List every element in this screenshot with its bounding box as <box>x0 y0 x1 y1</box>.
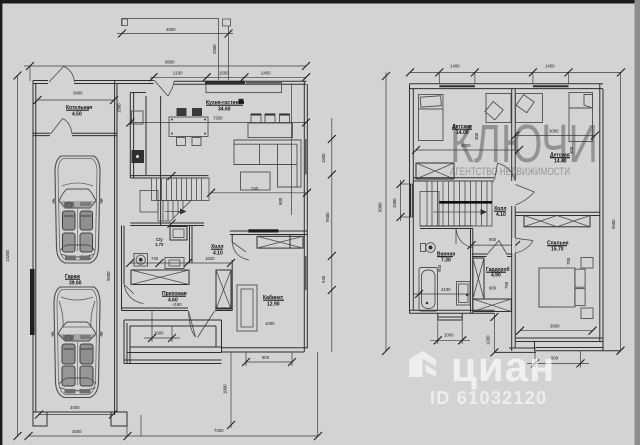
bath door arc <box>456 229 473 248</box>
svg-text:ID 61032120: ID 61032120 <box>430 388 547 408</box>
sofa L <box>234 140 301 187</box>
appliance square 1 <box>132 111 144 124</box>
watermark cian icon <box>409 351 436 377</box>
bath/wardrobe divider <box>470 229 472 314</box>
tall wardrobe crossed <box>216 270 231 309</box>
svg-text:7.30: 7.30 <box>441 258 451 264</box>
svg-text:1400: 1400 <box>545 64 555 69</box>
bottom wall prihozhaya <box>122 307 189 309</box>
dim 2500 vertical <box>228 26 230 80</box>
bathtub <box>419 268 438 312</box>
porch left plan <box>124 311 222 364</box>
bedroom bottom wall <box>515 337 603 339</box>
svg-text:1000: 1000 <box>265 321 275 326</box>
svg-text:7400: 7400 <box>214 428 224 433</box>
svg-text:1000: 1000 <box>444 333 454 338</box>
boiler room bottom wall with door <box>33 132 50 134</box>
svg-text:1500: 1500 <box>392 198 397 208</box>
bed 2 <box>569 93 593 142</box>
svg-text:2100: 2100 <box>441 287 451 292</box>
bar stools <box>251 114 261 123</box>
svg-text:1500: 1500 <box>117 103 122 113</box>
right outer wall <box>303 81 305 352</box>
desk <box>237 285 257 331</box>
stairwell left wall <box>160 178 162 226</box>
dim 3600 bedroom <box>520 330 593 332</box>
stairwell top wall <box>413 177 494 179</box>
bedroom2 door <box>516 185 535 193</box>
svg-text:4500: 4500 <box>166 27 176 32</box>
svg-text:циан: циан <box>451 343 555 390</box>
svg-text:+180: +180 <box>172 302 182 307</box>
svg-text:940: 940 <box>321 275 326 283</box>
dim 4500 line <box>117 33 233 35</box>
svg-text:14.40: 14.40 <box>554 159 567 165</box>
svg-text:1500: 1500 <box>219 71 229 76</box>
kitchen-living section <box>126 80 335 352</box>
svg-text:2500: 2500 <box>212 44 217 54</box>
svg-text:750: 750 <box>504 281 509 289</box>
svg-text:КЛЮЧИ: КЛЮЧИ <box>450 114 598 174</box>
window right wall cabinet <box>305 256 307 290</box>
right wall <box>599 84 601 342</box>
svg-text:4.50: 4.50 <box>72 112 82 118</box>
toilet <box>421 244 426 252</box>
TV dark bar <box>248 229 278 232</box>
left dim 9000 <box>385 72 387 351</box>
scan border left <box>0 0 2 445</box>
prihozhaya left wall <box>121 226 123 311</box>
car 1 <box>52 156 103 263</box>
svg-text:9000: 9000 <box>378 202 383 212</box>
svg-text:9500: 9500 <box>611 219 616 229</box>
hall/bedroom wall lower <box>511 206 513 351</box>
bedroom2 bottom wall <box>515 211 600 213</box>
garage side gate dark bar <box>30 269 35 335</box>
wardrobe crossed <box>131 270 189 285</box>
svg-text:4000: 4000 <box>72 429 82 434</box>
svg-text:300: 300 <box>474 132 479 140</box>
dim row 2100/1500/2400 <box>150 76 306 78</box>
lower flight with cut <box>158 201 191 222</box>
coffee table <box>241 172 271 190</box>
dining table <box>169 117 208 137</box>
svg-text:4.10: 4.10 <box>496 212 506 218</box>
extension right wall down <box>317 352 319 436</box>
svg-text:3400: 3400 <box>70 405 80 410</box>
cabinet door arc <box>232 242 249 260</box>
top wall <box>410 83 604 85</box>
scan border right dark band <box>635 0 640 445</box>
wardrobe crossed bottom box <box>473 299 512 312</box>
wardrobe crossed bedroom top <box>524 216 590 227</box>
svg-text:740: 740 <box>251 186 259 191</box>
living/hall bottom wall <box>230 230 308 232</box>
wardrobe crossed bedroom1 <box>416 163 454 179</box>
svg-text:12.90: 12.90 <box>267 302 280 308</box>
kitchen counter top <box>206 84 282 92</box>
svg-text:15.70: 15.70 <box>551 247 564 253</box>
garage bottom wall + gate pillars <box>33 412 47 426</box>
gate dim 3400 <box>39 414 113 416</box>
kitchen island <box>248 123 293 138</box>
staircase left plan <box>130 172 209 228</box>
garage right wall <box>114 81 116 416</box>
svg-text:2100: 2100 <box>173 71 183 76</box>
right dim 9500 <box>620 72 622 350</box>
scan border top <box>0 0 636 4</box>
washer <box>134 254 148 267</box>
svg-text:900: 900 <box>489 237 497 242</box>
window 2 top wall <box>246 82 282 84</box>
cabinet bottom wall <box>222 347 308 349</box>
wardrobe crossed tall column <box>473 258 484 299</box>
svg-text:9500: 9500 <box>325 212 330 222</box>
bath bottom wall <box>410 309 495 311</box>
dim 1200 vertical <box>493 313 495 352</box>
extension line x30 <box>29 66 31 81</box>
svg-text:1400: 1400 <box>450 64 460 69</box>
hall bottom wall / bath top <box>420 225 473 227</box>
outer wall: top of boiler room <box>33 80 48 82</box>
wardrobe top wall with double door <box>472 253 487 255</box>
window right wall living <box>305 139 307 175</box>
bed master <box>539 268 575 307</box>
window extension lines <box>438 72 440 84</box>
windows top wall <box>439 85 475 87</box>
entry door in top wall <box>49 67 64 83</box>
shaft square <box>170 227 187 241</box>
svg-text:7200: 7200 <box>213 116 223 121</box>
svg-text:14200: 14200 <box>5 249 10 262</box>
corridor dim 900 <box>472 244 516 246</box>
living bottom dim 900 <box>211 192 307 194</box>
svg-text:1000: 1000 <box>154 331 164 336</box>
sink cabinet <box>457 282 471 306</box>
svg-text:900: 900 <box>489 286 497 291</box>
svg-text:14.00: 14.00 <box>456 130 469 136</box>
svg-text:1620: 1620 <box>205 256 215 261</box>
cabinet left wall lower <box>231 260 233 311</box>
left wall <box>409 84 411 313</box>
right window dim <box>331 118 333 352</box>
svg-text:400: 400 <box>569 146 574 154</box>
svg-text:700: 700 <box>566 257 571 265</box>
top wall of kitchen <box>174 80 307 82</box>
dim 3400 boiler <box>38 99 115 101</box>
stairs right plan <box>427 181 492 226</box>
dim 3000 bedroom2 <box>515 135 595 137</box>
svg-text:740: 740 <box>151 256 159 261</box>
dresser <box>165 258 184 269</box>
svg-text:АГЕНТСТВО НЕДВИЖИМОСТИ: АГЕНТСТВО НЕДВИЖИМОСТИ <box>450 166 570 178</box>
svg-text:2400: 2400 <box>261 71 271 76</box>
cabinet room <box>222 229 318 436</box>
terrace below bedroom <box>534 342 536 351</box>
svg-text:9600: 9600 <box>106 271 111 281</box>
wall kitchen left column <box>129 93 131 179</box>
upper flight <box>152 178 210 201</box>
svg-text:4000: 4000 <box>461 143 471 148</box>
dim 7200 <box>130 122 306 124</box>
bedroom1 door <box>495 163 498 180</box>
svg-text:9800: 9800 <box>165 60 175 65</box>
hall left wall <box>189 226 191 264</box>
svg-text:1500: 1500 <box>321 153 326 163</box>
chimney square right <box>223 19 231 26</box>
window left wall <box>410 184 412 217</box>
svg-text:34.60: 34.60 <box>218 107 231 113</box>
chimney square left <box>122 19 128 26</box>
wardrobe crossed in cabinet <box>257 236 303 248</box>
vertical dim 1000 <box>230 352 232 428</box>
dim 900 below cabinet <box>246 361 292 363</box>
spalnya door opening <box>512 238 516 253</box>
wall above prihozhaya <box>130 222 204 224</box>
desk 2 <box>516 94 543 123</box>
porch dim 1000 <box>151 311 153 342</box>
svg-text:39.60: 39.60 <box>69 281 82 287</box>
car 2 <box>51 287 103 398</box>
window dark band top wall <box>205 81 245 85</box>
cabinet door wall stub <box>231 235 233 243</box>
desk 1 <box>486 94 511 123</box>
entry door arc <box>124 285 144 304</box>
left overall vertical dim <box>17 76 19 437</box>
column line in living <box>291 84 293 215</box>
hall / prihozhaya block <box>122 223 236 338</box>
porch below bath <box>437 313 439 320</box>
hall bottom corner wall <box>509 347 536 349</box>
svg-text:900: 900 <box>278 197 283 205</box>
double door V <box>189 311 196 337</box>
svg-text:4.90: 4.90 <box>491 273 501 279</box>
svg-text:900: 900 <box>262 355 270 360</box>
bath dim <box>414 293 471 295</box>
extension x127 <box>126 426 128 436</box>
svg-text:3600: 3600 <box>550 324 560 329</box>
bed 1 <box>419 95 444 141</box>
top balcony outline line <box>122 19 219 81</box>
terrace dim 900 <box>534 351 536 368</box>
hall dim line <box>130 262 231 264</box>
bottom dim 4000 <box>29 435 319 437</box>
svg-text:1000: 1000 <box>223 384 228 394</box>
stairwell top wall <box>130 175 208 177</box>
landing left <box>140 191 158 213</box>
svg-text:3000: 3000 <box>549 129 559 134</box>
entry door from garage block <box>154 80 168 96</box>
bedrooms divider wall <box>511 89 513 181</box>
svg-text:1.70: 1.70 <box>155 242 164 247</box>
stair arrow <box>165 211 184 213</box>
dim 9800 line <box>24 65 306 67</box>
top dim line <box>410 71 621 73</box>
svg-text:3400: 3400 <box>73 91 83 96</box>
left outer wall <box>32 81 34 416</box>
appliance dark square (sink) <box>132 150 145 163</box>
